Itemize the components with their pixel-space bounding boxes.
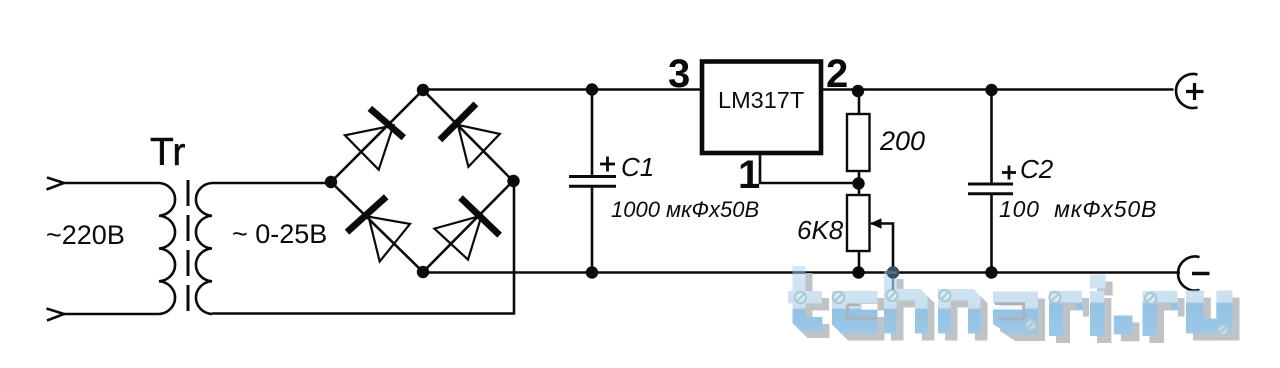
svg-text:6K8: 6K8 xyxy=(797,215,844,245)
svg-text:~220В: ~220В xyxy=(46,220,125,250)
svg-text:200: 200 xyxy=(879,126,925,156)
svg-text:LM317T: LM317T xyxy=(718,87,804,113)
svg-text:C1: C1 xyxy=(621,152,654,182)
svg-text:2: 2 xyxy=(826,52,848,96)
svg-text:100 мкФх50В: 100 мкФх50В xyxy=(999,196,1157,222)
svg-text:Tr: Tr xyxy=(150,131,185,174)
svg-text:1000 мкФх50В: 1000 мкФх50В xyxy=(611,197,759,222)
svg-text:3: 3 xyxy=(668,52,690,96)
svg-text:1: 1 xyxy=(738,153,760,197)
svg-text:C2: C2 xyxy=(1020,154,1054,184)
svg-text:~ 0-25В: ~ 0-25В xyxy=(232,219,327,249)
